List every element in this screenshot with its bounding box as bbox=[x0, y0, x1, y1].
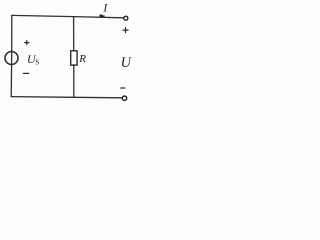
plus (source) bbox=[25, 41, 29, 45]
wire bottom bbox=[11, 97, 122, 98]
plus (port) bbox=[123, 28, 128, 33]
resistor R bbox=[71, 51, 77, 65]
current arrow I bbox=[100, 14, 106, 18]
minus (source) bbox=[23, 72, 28, 74]
svg-text:S: S bbox=[35, 57, 39, 66]
wire left lower bbox=[10, 64, 12, 96]
terminal top bbox=[124, 16, 128, 20]
svg-text:U: U bbox=[121, 55, 133, 71]
wire left upper bbox=[11, 15, 13, 51]
wire resistor branch lower bbox=[73, 65, 75, 97]
svg-text:R: R bbox=[78, 53, 86, 65]
wire top bbox=[12, 15, 124, 17]
terminal bottom bbox=[122, 96, 126, 100]
minus (port) bbox=[121, 87, 125, 89]
svg-text:I: I bbox=[102, 2, 108, 15]
wire resistor branch upper bbox=[73, 17, 75, 51]
voltage source US bbox=[5, 52, 18, 65]
